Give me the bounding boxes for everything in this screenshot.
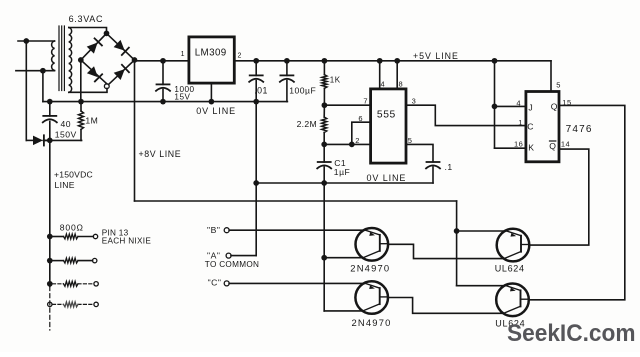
- svg-text:SeekIC.com: SeekIC.com: [507, 320, 636, 347]
- svg-text:.01: .01: [254, 85, 268, 95]
- svg-text:+150VDC: +150VDC: [54, 170, 93, 180]
- svg-text:2N4970: 2N4970: [352, 317, 392, 328]
- svg-text:0V LINE: 0V LINE: [196, 106, 236, 116]
- svg-text:UL624: UL624: [495, 263, 525, 273]
- svg-text:14: 14: [561, 140, 570, 149]
- svg-text:7476: 7476: [566, 124, 593, 135]
- svg-text:6.3VAC: 6.3VAC: [69, 14, 104, 24]
- svg-text:Q: Q: [551, 101, 558, 111]
- svg-text:1µF: 1µF: [334, 167, 350, 177]
- svg-text:LM309: LM309: [195, 48, 227, 59]
- svg-text:2: 2: [355, 136, 360, 145]
- svg-text:555: 555: [377, 109, 396, 120]
- svg-text:800Ω: 800Ω: [60, 223, 84, 233]
- svg-text:LINE: LINE: [55, 180, 75, 190]
- svg-text:1M: 1M: [85, 116, 98, 126]
- svg-text:2.2M: 2.2M: [297, 119, 317, 129]
- svg-text:EACH NIXIE: EACH NIXIE: [102, 236, 152, 245]
- svg-text:"B": "B": [207, 225, 220, 235]
- svg-text:1: 1: [518, 118, 523, 127]
- svg-text:2: 2: [238, 52, 242, 59]
- svg-text:Q: Q: [549, 141, 556, 151]
- svg-text:150V: 150V: [55, 129, 77, 139]
- svg-text:6: 6: [358, 114, 363, 123]
- svg-text:4: 4: [381, 80, 386, 89]
- svg-text:TO COMMON: TO COMMON: [205, 260, 259, 269]
- svg-text:+5V LINE: +5V LINE: [413, 51, 459, 61]
- svg-text:8: 8: [399, 80, 404, 89]
- svg-text:16: 16: [514, 139, 523, 148]
- svg-text:15V: 15V: [174, 92, 190, 101]
- svg-text:1: 1: [181, 51, 185, 58]
- svg-text:.1: .1: [445, 162, 453, 172]
- svg-text:5: 5: [408, 136, 413, 145]
- svg-text:100µF: 100µF: [289, 85, 316, 95]
- svg-text:5: 5: [556, 80, 561, 89]
- svg-text:+8V LINE: +8V LINE: [139, 149, 182, 159]
- svg-text:4: 4: [516, 98, 521, 107]
- svg-text:J: J: [528, 102, 533, 112]
- svg-text:C: C: [527, 121, 534, 131]
- svg-text:0V LINE: 0V LINE: [367, 173, 407, 183]
- svg-text:"C": "C": [208, 277, 222, 287]
- svg-text:1K: 1K: [330, 75, 341, 84]
- svg-text:7: 7: [363, 97, 368, 106]
- svg-text:K: K: [528, 142, 534, 152]
- svg-text:40: 40: [61, 119, 72, 129]
- svg-text:2N4970: 2N4970: [350, 262, 390, 273]
- svg-text:"A": "A": [207, 250, 220, 260]
- svg-text:3: 3: [412, 97, 417, 106]
